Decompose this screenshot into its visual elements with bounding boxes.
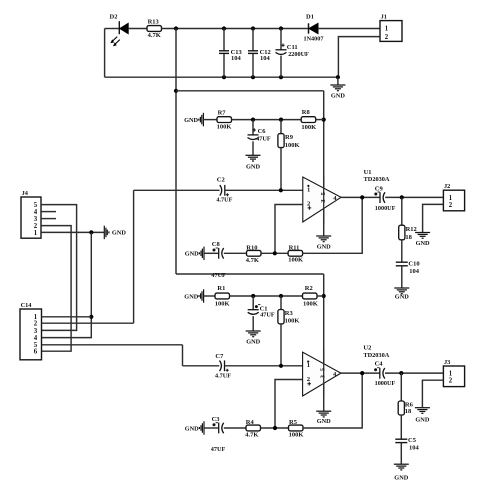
svg-text:1N4007: 1N4007: [304, 35, 324, 42]
junction: R6 tap: [399, 371, 403, 375]
junction: U2 inverting node: [273, 426, 277, 430]
ground under C5: [394, 463, 409, 465]
plus mark C7: [226, 369, 229, 372]
svg-text:100K: 100K: [301, 124, 316, 131]
wire: J1 pin 2 down to ground rail: [338, 37, 380, 78]
resistor R2: [303, 293, 318, 299]
svg-text:U2: U2: [363, 344, 371, 351]
ground under op-amp U2: [316, 410, 331, 412]
wire: J4 pin 4 stub: [41, 211, 56, 213]
junction: R9 top: [279, 118, 283, 122]
svg-text:GND: GND: [331, 92, 345, 99]
wire: J4 pin 5 to C14 pin 3: [41, 205, 77, 331]
junction: ground bus top: [89, 230, 93, 234]
wire: R9 to input rail: [280, 148, 282, 191]
svg-text:4.7K: 4.7K: [148, 32, 161, 39]
svg-text:47UF: 47UF: [256, 136, 271, 143]
svg-text:GND: GND: [246, 339, 260, 346]
svg-text:C2: C2: [217, 177, 225, 184]
plus mark C8: [213, 249, 216, 252]
wire: C6 upper lead: [252, 120, 254, 135]
svg-text:4.7K: 4.7K: [246, 257, 259, 264]
svg-text:J4: J4: [22, 190, 29, 197]
svg-text:C9: C9: [375, 186, 384, 193]
wire: C12 lower lead: [252, 54, 254, 78]
junction: R12 tap: [400, 195, 404, 199]
capacitor C10 (104): [396, 261, 408, 263]
resistor R3: [278, 310, 284, 324]
svg-text:100K: 100K: [303, 300, 318, 307]
svg-text:104: 104: [231, 55, 242, 62]
resistor R8: [301, 117, 316, 123]
svg-text:104: 104: [260, 55, 271, 62]
capacitor C9 (1000UF): [379, 192, 381, 203]
wire: GND to R7: [203, 119, 217, 121]
wire: GND stub under J1: [337, 77, 339, 85]
junction: R3 bottom on input rail: [279, 364, 283, 368]
junction: C14 pin 1 on ground bus: [89, 315, 93, 319]
junction: C6 top: [251, 118, 255, 122]
capacitor C2 (4.7UF): [220, 185, 222, 196]
diode D1 (1N4007): [308, 23, 310, 33]
plus mark C2: [226, 193, 229, 196]
wire: C13 lower lead: [223, 54, 225, 78]
resistor R1: [215, 293, 230, 299]
op-amp U1 TD2030A: [303, 177, 341, 222]
svg-text:D2: D2: [110, 14, 118, 21]
LED D2 symbol: [118, 21, 120, 34]
svg-text:4.7K: 4.7K: [245, 432, 258, 439]
capacitor C4 (1000UF): [379, 368, 381, 379]
ground under C1: [246, 330, 261, 332]
wire: C14 pin 5 riser to input rail: [182, 345, 184, 366]
svg-text:2: 2: [449, 202, 453, 209]
wire: R13 to diode D1 anode rail with cap taps: [162, 28, 309, 30]
wire: C3 to R4: [224, 427, 246, 429]
wire: R5 to output feedback riser: [303, 373, 362, 428]
svg-text:R13: R13: [148, 19, 160, 26]
wire: C9 to J2 pin 1: [385, 196, 443, 198]
svg-text:C10: C10: [408, 261, 419, 268]
svg-text:GND: GND: [184, 117, 198, 124]
wire: R1 to R2: [230, 295, 303, 297]
junction: C13 top: [222, 26, 226, 30]
svg-text:R3: R3: [285, 310, 294, 317]
junction: U1 inverting node: [273, 251, 277, 255]
wire: ground return rail y77: [105, 76, 338, 78]
svg-text:R1: R1: [217, 285, 225, 292]
ground under C6: [246, 154, 261, 156]
junction: C12 bottom: [251, 75, 255, 79]
svg-text:47UF: 47UF: [211, 446, 226, 453]
wire: U2 pin 2 to feedback node: [275, 380, 303, 429]
plus mark C4: [374, 368, 377, 371]
svg-text:C8: C8: [212, 241, 221, 248]
wire: main supply vertical x176: [175, 29, 177, 275]
wire: U1 pin 2 to feedback node: [275, 205, 303, 254]
junction: R8 right end: [322, 118, 326, 122]
wire: C4 to J3 pin 1: [385, 372, 443, 374]
junction: C1 top: [251, 294, 255, 298]
wire: C12 leads: [252, 29, 254, 51]
svg-text:47UF: 47UF: [211, 272, 226, 279]
svg-text:C11: C11: [287, 44, 298, 51]
wire: U1 supply drop x323.7: [323, 91, 325, 236]
svg-text:1: 1: [307, 362, 310, 369]
wire: R3 upper lead: [280, 296, 282, 310]
wire: C10 to ground: [401, 266, 403, 288]
wire: R10 to R11: [261, 252, 288, 254]
svg-text:R7: R7: [218, 109, 227, 116]
svg-text:100K: 100K: [285, 142, 300, 149]
wire: C6 lower lead: [252, 141, 254, 155]
wire: R4 to R5: [261, 427, 289, 429]
svg-text:GND: GND: [415, 417, 429, 424]
svg-text:1: 1: [385, 26, 389, 33]
svg-text:1000UF: 1000UF: [375, 205, 396, 212]
svg-text:4.7UF: 4.7UF: [215, 373, 231, 380]
svg-text:1: 1: [307, 186, 310, 193]
wire: left vertical of LED loop: [104, 29, 106, 78]
svg-text:GND: GND: [317, 418, 331, 425]
junction: C12 top: [251, 26, 255, 30]
wire: output node to R6: [400, 373, 402, 401]
svg-text:6: 6: [34, 349, 38, 356]
svg-text:1000UF: 1000UF: [375, 380, 396, 387]
wire: R3 to U2 input rail: [280, 324, 282, 366]
resistor R13: [147, 26, 162, 32]
svg-text:3: 3: [34, 328, 38, 335]
capacitor C5 (104): [395, 438, 407, 440]
svg-text:47UF: 47UF: [260, 311, 275, 318]
svg-text:C3: C3: [212, 416, 221, 423]
wire: U1 supply rail y91: [176, 90, 324, 92]
svg-text:GND: GND: [185, 425, 199, 432]
capacitor C3 (47UF): [218, 423, 220, 434]
capacitor C12: [248, 50, 258, 52]
wire: C1 lower lead: [252, 316, 254, 331]
ground under J2: [415, 232, 430, 234]
svg-text:GND: GND: [185, 251, 199, 258]
wire: J3 pin 2 to ground: [422, 380, 443, 407]
svg-text:C7: C7: [215, 353, 224, 360]
svg-text:2: 2: [449, 378, 453, 385]
wire: C14 pin 1 to ground bus: [42, 316, 92, 318]
wire: C7 to U2 pin 1: [225, 365, 303, 367]
svg-text:2: 2: [34, 321, 38, 328]
svg-text:R8: R8: [302, 109, 311, 116]
wire: J4 pin 1 to ground symbol: [41, 231, 104, 233]
resistor R4: [246, 425, 261, 431]
junction: R2 right end: [322, 294, 326, 298]
svg-text:18: 18: [405, 408, 412, 415]
svg-text:D1: D1: [306, 14, 314, 21]
plus mark C3: [213, 423, 216, 426]
wire: R9 upper lead: [280, 120, 282, 134]
capacitor C7 (4.7UF): [220, 361, 222, 372]
svg-text:104: 104: [409, 268, 420, 275]
wire: GND to C3: [204, 427, 219, 429]
wire: C2 to U1 pin 1: [225, 189, 303, 191]
svg-text:3: 3: [34, 216, 38, 223]
resistor R12: [399, 225, 405, 240]
svg-text:U1: U1: [364, 169, 372, 176]
svg-text:100K: 100K: [217, 124, 232, 131]
plus mark C9: [374, 193, 377, 196]
wire: C11 upper lead: [280, 29, 282, 50]
ground under C10: [394, 287, 409, 289]
svg-text:GND: GND: [112, 230, 126, 237]
wire: C13 leads: [223, 29, 225, 51]
svg-text:R2: R2: [305, 285, 313, 292]
resistor R5: [289, 425, 304, 431]
svg-text:GND: GND: [246, 164, 260, 171]
svg-text:C14: C14: [21, 302, 33, 309]
svg-text:4: 4: [34, 209, 38, 216]
op-amp U2 TD2030A: [303, 352, 341, 396]
wire: output node to R12: [401, 197, 403, 225]
pin labels inside U2: [307, 361, 309, 363]
svg-text:C6: C6: [258, 128, 267, 135]
junction: C13 bottom: [222, 75, 226, 79]
svg-text:5: 5: [34, 202, 38, 209]
wire: R2 to supply drop: [317, 295, 324, 297]
wire: C14 pin 5 to U2 input: [42, 344, 183, 346]
junction: supply tap at x176: [174, 26, 178, 30]
ground under op-amp U1: [316, 235, 331, 237]
ground under J1: [330, 84, 345, 86]
svg-text:104: 104: [409, 445, 420, 452]
ground right of J4 pin 1: [103, 226, 105, 240]
capacitor C13: [219, 50, 229, 52]
svg-text:100K: 100K: [215, 300, 230, 307]
svg-text:R9: R9: [285, 134, 294, 141]
junction: C11 bottom: [279, 75, 283, 79]
junction: ground rail to GND: [336, 75, 340, 79]
svg-text:GND: GND: [394, 474, 408, 481]
svg-text:100K: 100K: [285, 317, 300, 324]
svg-text:J1: J1: [381, 13, 387, 20]
resistor R11: [288, 250, 303, 256]
capacitor C11 (2200UF electrolytic): [276, 49, 287, 51]
svg-text:2: 2: [385, 34, 389, 41]
svg-text:100K: 100K: [288, 257, 303, 264]
wire: R7 to R8: [232, 119, 302, 121]
svg-text:R12: R12: [406, 226, 417, 233]
resistor R9: [278, 134, 284, 148]
wire: U2 output to C4: [341, 372, 380, 374]
wire: U2 supply drop: [323, 274, 325, 411]
resistor R7: [217, 117, 232, 123]
wire: input drop to C14 pin 2: [133, 190, 135, 323]
svg-text:100K: 100K: [289, 432, 304, 439]
wire: GND to C8: [204, 252, 219, 254]
wire: top supply rail from LED loop to J1 pin 1: [105, 28, 119, 30]
svg-text:TD2030A: TD2030A: [363, 352, 389, 359]
plus mark C6: [253, 128, 256, 131]
wire: C14 pin 2 to U1 input riser: [42, 322, 134, 324]
wire: U1 output to C9: [341, 196, 380, 198]
junction: supply at rail y91: [174, 89, 178, 93]
wire: J4 pin 3 stub: [41, 218, 56, 220]
svg-text:GND: GND: [416, 240, 430, 247]
svg-text:18: 18: [405, 234, 412, 241]
wire: J4 pin 2 to C14 pin 6: [41, 226, 71, 352]
svg-text:J3: J3: [444, 359, 450, 366]
svg-text:R10: R10: [246, 245, 257, 252]
plus mark C11: [281, 44, 284, 47]
wire: C11 lower lead: [280, 56, 282, 78]
junction: R9 bottom on input rail: [279, 188, 283, 192]
svg-text:1: 1: [34, 230, 38, 237]
wire: GND to R1: [204, 295, 215, 297]
junction: R3 top: [279, 294, 283, 298]
wire: C1 upper lead: [252, 296, 254, 310]
junction: C11 top: [279, 26, 283, 30]
svg-text:R11: R11: [289, 244, 300, 251]
wire: R12 to C10: [401, 240, 403, 262]
svg-text:TD2030A: TD2030A: [364, 176, 390, 183]
resistor R10: [247, 250, 262, 256]
svg-text:4.7UF: 4.7UF: [216, 197, 232, 204]
wire: LED to R13: [128, 28, 147, 30]
wire: R6 to C5: [400, 415, 402, 439]
wire: ground bus down to C14 pin 4: [42, 232, 92, 337]
svg-text:GND: GND: [317, 244, 331, 251]
wire: input rail to C2: [134, 189, 220, 191]
svg-text:C4: C4: [375, 361, 384, 368]
wire: C8 to R10: [224, 252, 247, 254]
wire: C5 to ground: [400, 443, 402, 464]
svg-text:2200UF: 2200UF: [288, 51, 309, 58]
resistor R6: [398, 401, 404, 415]
wire: R8 to supply drop: [316, 119, 324, 121]
wire: input rail to C7: [183, 365, 220, 367]
capacitor C8 (47UF): [218, 248, 220, 259]
capacitor C1 (47UF): [248, 309, 259, 311]
junction: feedback tap on output: [360, 195, 364, 199]
svg-text:GND: GND: [184, 293, 198, 300]
svg-text:GND: GND: [395, 294, 409, 301]
svg-text:R5: R5: [289, 419, 298, 426]
wire: J2 pin 2 to ground: [423, 204, 444, 232]
svg-text:4: 4: [34, 335, 38, 342]
svg-text:R4: R4: [246, 419, 255, 426]
svg-text:J2: J2: [444, 183, 450, 190]
svg-text:C5: C5: [408, 437, 417, 444]
pin labels inside U1: [307, 185, 309, 187]
ground under J3: [415, 407, 430, 409]
junction: feedback tap on U2 output: [360, 371, 364, 375]
wire: U2 supply rail y274: [176, 273, 324, 275]
wire: R11 to output feedback riser: [303, 197, 363, 253]
wire: D1 to J1 pin 1: [318, 28, 380, 30]
capacitor C6 (47UF): [248, 134, 259, 136]
plus mark C1: [255, 305, 258, 308]
